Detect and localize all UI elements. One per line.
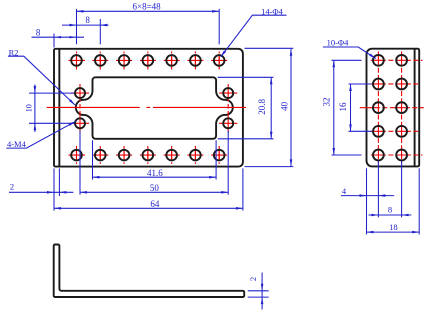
centerline: main horizontal axis (47, 106, 249, 108)
dimension 6x8=48 (77, 10, 220, 12)
svg-text:2: 2 (10, 181, 14, 191)
dimension 32 (333, 60, 335, 155)
centerline: M4 right column (227, 84, 229, 133)
dimension 8 (side view) (369, 214, 412, 216)
svg-text:10: 10 (25, 104, 34, 112)
dimension 10 (M4 vertical) (34, 85, 36, 132)
svg-text:6×8=48: 6×8=48 (133, 1, 162, 11)
svg-text:8: 8 (388, 205, 392, 215)
side view: bend line (414, 49, 416, 167)
extension lines right (218, 48, 294, 166)
svg-text:41.6: 41.6 (147, 168, 163, 178)
svg-text:64: 64 (150, 199, 160, 209)
side view: vertical centerlines (378, 52, 401, 164)
red crosses top row (77, 56, 220, 64)
centerline: vertical marks bottom row (77, 146, 220, 164)
extension lines bottom (54, 131, 243, 211)
svg-text:32: 32 (322, 98, 332, 107)
side view: horizontal centerlines (360, 60, 424, 155)
svg-text:20.8: 20.8 (257, 99, 267, 115)
dimension 4 (341, 195, 394, 197)
side view: flange outline (367, 49, 420, 167)
svg-text:40: 40 (279, 101, 289, 111)
centerline: top hole row (69, 59, 228, 61)
main view: bend line (58, 49, 60, 167)
centerline: bottom hole row (69, 154, 228, 156)
centerline: M4 left column (79, 84, 81, 133)
svg-text:8: 8 (36, 27, 41, 37)
main view: plate outline (54, 49, 243, 167)
dimension 64 (54, 207, 243, 209)
svg-text:4-M4: 4-M4 (7, 139, 27, 149)
dimension 40 (plate height) (290, 49, 292, 167)
dimension 2 (L profile thickness) (261, 273, 263, 310)
svg-text:8: 8 (85, 15, 90, 25)
hole row bottom (7x phi4) (71, 150, 224, 161)
side view: holes (10x phi4) (373, 55, 407, 161)
dimension 50 (80, 191, 228, 193)
dimension 2 (flange thickness, bottom left) (9, 191, 73, 193)
dimension 8 (edge to first column) (32, 36, 85, 38)
hole row top (7x phi4) (71, 55, 224, 66)
extension lines side view left (332, 60, 372, 155)
centerline: M4 hole horizontals (71, 93, 237, 123)
centerline: vertical marks top row (77, 52, 220, 70)
main view: window cutout (76, 77, 233, 139)
dimension 41.6 (93, 176, 217, 178)
extension lines side view bottom (367, 161, 420, 235)
svg-text:10-Φ4: 10-Φ4 (327, 38, 350, 48)
red crosses bottom row (77, 151, 220, 159)
svg-text:2: 2 (248, 277, 258, 281)
svg-text:18: 18 (389, 222, 398, 232)
dimension 20.8 (window height) (270, 77, 272, 139)
M4 holes (4x) (75, 88, 233, 128)
dimension 18 (367, 231, 420, 233)
dimension 16 (350, 84, 352, 131)
extension lines top (54, 9, 219, 48)
dimension 8 (column 1 to 2) (62, 24, 109, 26)
svg-text:16: 16 (338, 102, 348, 112)
svg-text:50: 50 (150, 183, 160, 193)
L profile view outline (54, 245, 245, 298)
